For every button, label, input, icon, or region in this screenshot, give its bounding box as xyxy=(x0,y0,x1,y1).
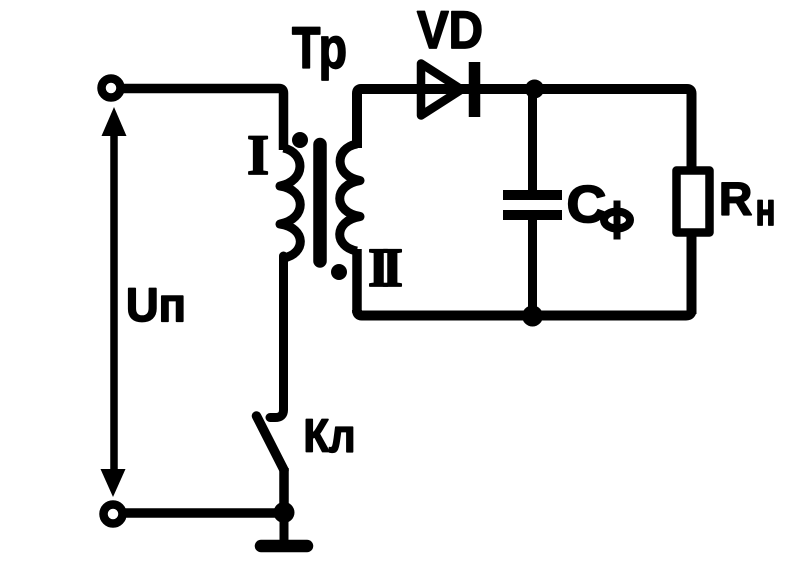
wire capacitor bottom lead xyxy=(528,218,537,317)
transformer primary winding I xyxy=(280,148,300,258)
svg-text:н: н xyxy=(756,183,776,235)
transformer core xyxy=(313,145,327,262)
wire input top rail to transformer primary xyxy=(123,89,284,151)
polarity dot secondary xyxy=(331,264,347,280)
transformer secondary winding II xyxy=(340,144,360,251)
wire primary bottom lead to switch contact xyxy=(270,256,284,418)
diode VD triangle (anode) xyxy=(421,64,462,116)
wire bottom rail xyxy=(357,310,692,316)
resistor Rn body xyxy=(677,171,710,233)
wire ground stub xyxy=(280,513,289,540)
wire input bottom rail xyxy=(125,508,284,518)
svg-text:Uп: Uп xyxy=(126,278,186,331)
terminal X2 (bottom input) xyxy=(104,505,123,524)
svg-text:Кл: Кл xyxy=(304,410,356,462)
junction node bottom (capacitor / bottom rail) xyxy=(522,306,543,327)
svg-text:II: II xyxy=(368,237,403,298)
junction node top (diode cathode / filter) xyxy=(525,80,544,99)
svg-text:I: I xyxy=(247,124,269,187)
polarity dot primary xyxy=(292,132,308,148)
svg-text:VD: VD xyxy=(417,1,483,60)
wire switch to bottom junction xyxy=(279,468,289,515)
terminal X1 (top input) xyxy=(102,79,121,98)
Un arrowhead down xyxy=(101,469,126,497)
Un arrowhead up xyxy=(102,107,127,136)
diode VD cathode bar xyxy=(469,62,481,117)
svg-text:Тр: Тр xyxy=(292,16,347,81)
capacitor Cf bottom plate xyxy=(503,210,562,220)
wire secondary bottom lead xyxy=(352,249,362,313)
svg-text:С: С xyxy=(567,176,607,234)
capacitor Cf top plate xyxy=(503,190,562,200)
junction node switch/ground xyxy=(274,502,295,523)
svg-text:R: R xyxy=(719,173,752,225)
ground symbol xyxy=(261,540,307,553)
switch Kl blade xyxy=(257,416,285,470)
Un measuring arrow shaft xyxy=(110,120,118,480)
wire resistor bottom lead xyxy=(687,236,697,314)
wire capacitor top lead xyxy=(528,88,537,192)
wire secondary top rail through diode to load corner xyxy=(357,89,692,168)
